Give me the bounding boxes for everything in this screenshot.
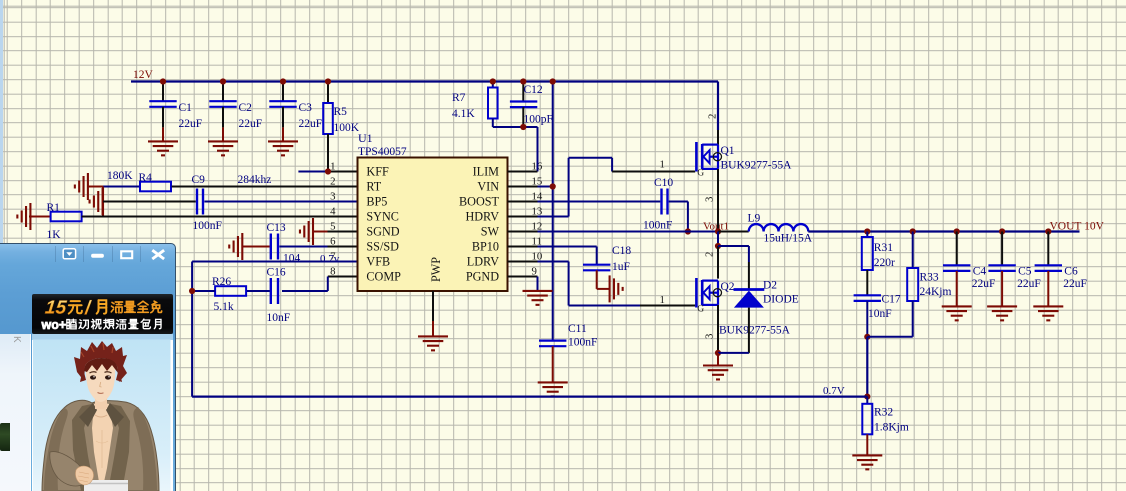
wire ground bus vertical — [102, 187, 104, 217]
wire R1 to pin 4 SYNC — [82, 216, 358, 218]
net label Vout1 — [703, 220, 729, 232]
ad character jacket — [42, 400, 159, 491]
wire R4 to pin 2 — [172, 186, 358, 188]
wire R7 to ILIM link — [493, 119, 538, 128]
resistor R26 5.1k — [212, 276, 246, 313]
capacitor C9 100nF — [192, 174, 222, 232]
wire R31 to C17 — [866, 270, 868, 295]
pin number 3 Q1 source — [704, 197, 716, 202]
wire divider to 0.7V node — [864, 337, 870, 400]
ground below C11 — [538, 382, 568, 396]
wire R33 bottom to junction — [867, 301, 912, 337]
button minimize — [91, 254, 104, 258]
resistor R5 100K — [323, 103, 360, 134]
wire C5 to VOUT — [999, 228, 1005, 265]
wire RT to R4 — [103, 186, 140, 188]
node junction pin1/R5 — [325, 168, 331, 174]
ground below C5 — [987, 306, 1017, 320]
ad character lapels — [72, 404, 95, 491]
diode D2 DIODE — [734, 280, 799, 308]
capacitor C4 22uF — [943, 265, 995, 290]
wire BP10 to C18 — [508, 247, 597, 265]
capacitor C13 104 — [267, 222, 301, 265]
ground at SS/SD net — [229, 233, 242, 260]
node junction VFB/R26 — [189, 288, 195, 294]
net label VOUT 10V — [1050, 220, 1105, 232]
wire PGND to ground — [508, 277, 538, 291]
resistor R7 4.1K — [452, 88, 498, 121]
wire R5 to bus — [325, 78, 331, 103]
ground G2 at BP5 net — [90, 188, 103, 215]
wire BP5 to C9 — [103, 201, 196, 203]
wire C18 to ground — [597, 270, 610, 289]
ground below C3 — [268, 141, 298, 155]
capacitor C11 100nF — [539, 323, 597, 349]
ground at SGND pin 5 — [300, 218, 328, 245]
wire C1 to bus — [160, 78, 166, 101]
wire R33 branch — [910, 228, 916, 268]
ad banner promo text 15yuan/month — [44, 298, 68, 319]
wire C12 to bus — [520, 78, 526, 101]
wire C16 to R26 — [246, 290, 269, 292]
capacitor C2 22uF — [209, 101, 262, 130]
transistor Q1 BUK9277-55A — [696, 142, 792, 179]
wire C6 to VOUT — [1045, 228, 1051, 265]
wire R31 branch — [864, 228, 870, 237]
pin number 2 Q2 drain — [704, 252, 716, 257]
pin PWP label — [429, 257, 443, 282]
wire VFB vertical — [191, 262, 193, 397]
wire LDRV to Q2 gate — [508, 262, 696, 306]
ground below PGND — [523, 291, 553, 305]
wire R26 to VFB node — [192, 290, 215, 292]
wire ground to C13 — [242, 246, 269, 248]
ground below C2 — [208, 141, 238, 155]
ground below R32 — [852, 455, 882, 469]
wire C5 to ground — [1001, 271, 1003, 306]
wire HDRV to Q1 gate — [508, 158, 696, 217]
net label 0.7V — [823, 385, 845, 397]
wire KFF stub — [298, 171, 357, 173]
wire C6 to ground — [1047, 271, 1049, 306]
ad character hair — [74, 341, 127, 382]
wire PWP pin down — [432, 291, 434, 336]
pin names left — [366, 165, 401, 284]
resistor R31 220r — [862, 237, 895, 270]
ground G0 at R1 — [17, 203, 30, 230]
ground below C1 — [148, 141, 178, 155]
wire COMP stub — [282, 277, 358, 292]
capacitor C18 1uF — [583, 245, 631, 273]
wire ILIM link down — [508, 127, 538, 172]
wire C17 to junction — [864, 301, 870, 340]
pin names right — [459, 165, 500, 284]
wire Q2 drain from SW — [715, 232, 721, 279]
net label 12V — [133, 69, 154, 81]
wire R5 to pin 1 — [327, 134, 329, 172]
ad character chest skin — [92, 402, 113, 482]
capacitor C1 22uF — [149, 101, 202, 130]
wire to ground below Q2 — [717, 353, 719, 365]
node junction BOOST/SW — [685, 228, 691, 234]
wire R7 to bus — [490, 78, 496, 87]
wire BOOST to C10 — [508, 201, 661, 203]
ad character bent arm and hand — [50, 452, 85, 486]
capacitor C6 22uF — [1035, 265, 1087, 290]
wire SW row — [508, 231, 719, 233]
resistor R32 1.8Kjm — [862, 397, 909, 435]
capacitor C5 22uF — [988, 265, 1040, 290]
wire C10 to SW node — [669, 202, 688, 232]
ground right of C18 — [610, 275, 623, 302]
resistor R4 180K — [107, 170, 171, 191]
resistor R1 1K — [47, 202, 82, 241]
button dropdown — [63, 249, 75, 259]
op-amp U1 TPS40057 controller — [358, 131, 508, 291]
capacitor C17 10nF — [854, 294, 901, 321]
wire Q1 drain from bus — [717, 82, 719, 145]
inductor L9 15uH/15A — [748, 213, 813, 245]
wire C12 to ILIM link — [520, 107, 526, 130]
ground below C4 — [942, 306, 972, 320]
wire Q1 source to SW — [715, 169, 721, 235]
wire feedback 0.7V row — [192, 396, 867, 398]
titlebar buttons — [0, 244, 176, 491]
wire C9 to pin 3 — [204, 201, 357, 203]
window edge strip — [0, 0, 3, 243]
capacitor C3 22uF — [269, 101, 322, 130]
wire C11 to ground — [552, 346, 554, 382]
ground below C6 — [1033, 306, 1063, 320]
wire R32 to ground — [866, 434, 868, 455]
wire C4 to VOUT — [954, 228, 960, 265]
wire C4 to ground — [956, 271, 958, 306]
wire VIN stub — [508, 186, 553, 188]
ad character face — [86, 359, 115, 402]
button close — [152, 250, 164, 259]
ground below Q2/D2 — [703, 366, 733, 380]
capacitor C10 100nF — [643, 177, 673, 232]
wire SW to L9 — [718, 231, 749, 233]
pin number 2 Q1 drain — [707, 114, 719, 119]
ground G1 at RT net — [75, 173, 103, 200]
capacitor C12 100pF — [510, 84, 553, 126]
resistor R33 24Kjm — [907, 268, 951, 301]
pin number 1 Q1 gate — [660, 159, 665, 171]
capacitor C16 10nF — [267, 267, 291, 325]
ad popup window — [0, 243, 176, 491]
pin number 1 Q2 gate — [660, 294, 665, 306]
svg-text:/: / — [84, 298, 92, 319]
wire C2 to ground — [222, 107, 224, 141]
wire C3 to bus — [280, 78, 286, 101]
svg-text:wo+: wo+ — [41, 318, 67, 332]
wire VFB pin 7 — [192, 261, 357, 263]
wire C3 to ground — [282, 107, 284, 141]
wire VIN vertical to bus and C11 — [550, 78, 556, 340]
wire Q2 source to ground row — [715, 305, 721, 356]
wire ground to R1 — [29, 216, 51, 218]
pin number 3 Q2 source — [704, 334, 716, 339]
transistor Q2 BUK9277-55A — [696, 278, 790, 337]
wire L9 to VOUT — [808, 230, 1079, 232]
wire C1 to ground — [162, 107, 164, 141]
pin numbers 16-9 — [532, 160, 543, 277]
ground below PWP — [418, 336, 448, 350]
wire 12V power bus — [131, 80, 718, 82]
wire D2 cathode to SW net — [718, 246, 749, 289]
button maximize — [121, 251, 132, 258]
net label 0.7v — [320, 253, 340, 265]
pin numbers 1-8 — [330, 160, 336, 277]
ad character pants — [84, 480, 128, 491]
net label 284khz — [238, 174, 272, 186]
svg-text:15: 15 — [44, 298, 68, 319]
wire SGND stub — [328, 231, 358, 233]
wire C13 to pin 6 — [279, 246, 357, 248]
wire C2 to bus — [220, 78, 226, 101]
ad character neck — [95, 395, 107, 409]
wire D2 anode to ground row — [718, 308, 749, 353]
